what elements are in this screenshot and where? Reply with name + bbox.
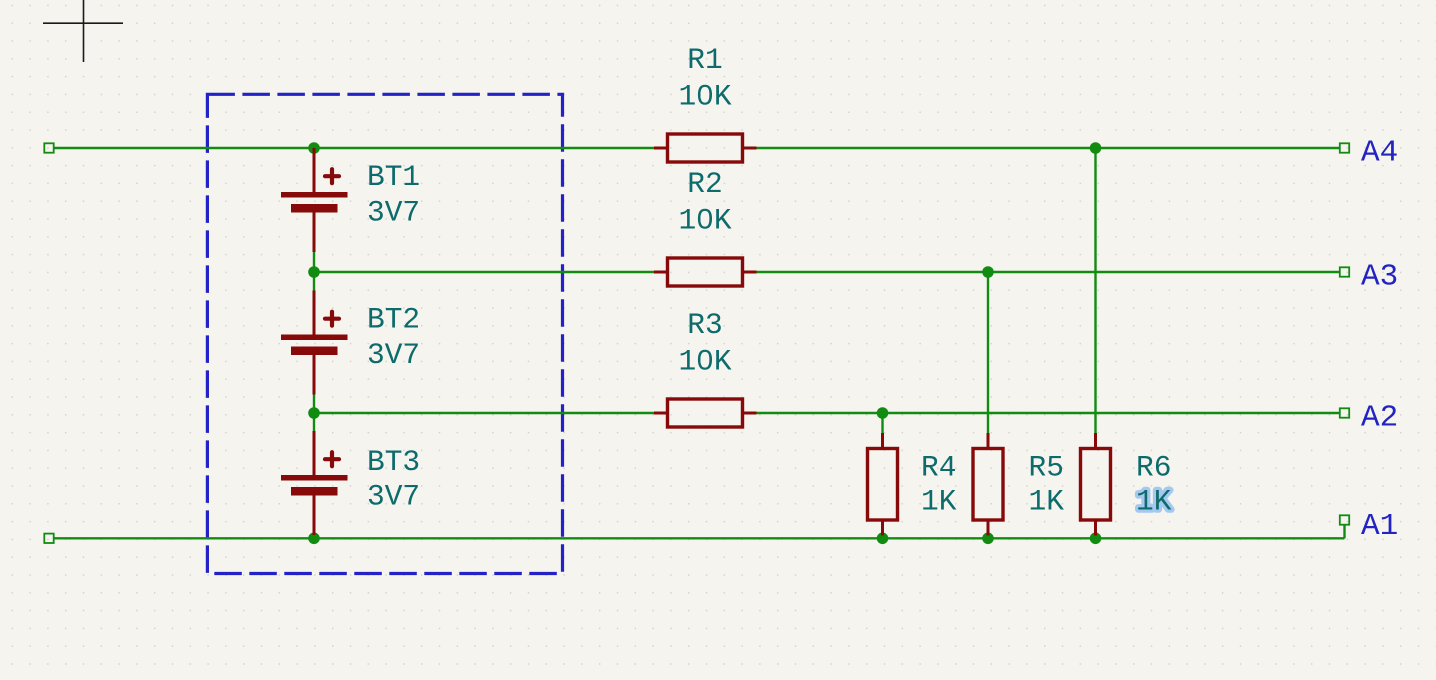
wire end square, A4 right: [1340, 143, 1349, 152]
wire battery stack bottom link: [313, 535, 315, 538]
wire net A3 (right segment): [757, 271, 1341, 273]
svg-text:R3: R3: [687, 308, 722, 342]
wire R6 branch (A4 down to R6): [1094, 148, 1096, 433]
value label 10K (R2): [678, 204, 731, 238]
junction R6 / A1: [1090, 533, 1102, 545]
svg-text:1K: 1K: [921, 485, 957, 519]
junction BT1-BT2 / A3: [308, 266, 320, 278]
wire end square, A2 right: [1340, 408, 1349, 417]
svg-text:R5: R5: [1029, 451, 1064, 485]
resistor R6: [1081, 433, 1111, 536]
junction R4 / A2: [877, 407, 889, 419]
wire net A1 (vertical jog at right end): [1343, 525, 1345, 539]
resistor R3: [654, 399, 757, 427]
svg-text:1K: 1K: [1029, 485, 1065, 519]
svg-text:R2: R2: [687, 167, 722, 201]
wire R5 branch (A3 down to R5): [987, 272, 989, 433]
svg-text:A1: A1: [1361, 509, 1398, 544]
value label 10K (R3): [678, 345, 731, 379]
junction BT3 bottom / A1: [308, 533, 320, 545]
wire net A4 (left segment): [53, 147, 654, 149]
wire net A1 (bottom horizontal): [53, 537, 1345, 539]
junction R5 / A3: [982, 266, 994, 278]
value label 1K (R6, highlighted): [1136, 485, 1172, 519]
svg-text:3V7: 3V7: [367, 338, 420, 372]
svg-text:R4: R4: [921, 451, 956, 485]
battery BT2: [281, 291, 348, 395]
wire net A3 (left segment): [314, 271, 654, 273]
wire net A2 (right segment): [757, 412, 1341, 414]
svg-text:A2: A2: [1361, 401, 1398, 436]
wire battery stack BT1-BT2 link: [313, 252, 315, 291]
value label 10K (R1): [678, 80, 731, 114]
svg-text:A3: A3: [1361, 260, 1398, 295]
battery BT3: [281, 431, 348, 535]
svg-text:R1: R1: [687, 43, 722, 77]
wire net A2 (left segment): [314, 412, 654, 414]
svg-text:R6: R6: [1136, 451, 1171, 485]
resistor R1: [654, 134, 757, 162]
junction R6 / A4: [1090, 142, 1102, 154]
junction BT1 top / A4: [308, 142, 320, 154]
junction R4 / A1: [877, 533, 889, 545]
resistor R4: [868, 433, 898, 536]
svg-text:BT2: BT2: [367, 303, 420, 337]
svg-text:1K: 1K: [1136, 485, 1172, 519]
svg-text:BT3: BT3: [367, 445, 420, 479]
svg-text:3V7: 3V7: [367, 480, 420, 514]
resistor R2: [654, 258, 757, 286]
resistor R5: [973, 433, 1003, 536]
wire battery stack BT2-BT3 link: [313, 395, 315, 432]
battery BT1: [281, 148, 348, 252]
origin marker: [43, 0, 123, 62]
dashed graphic box (battery group): [207, 94, 562, 573]
wire end square, A1 right: [1340, 515, 1349, 524]
wire end square, A1 left: [44, 534, 53, 543]
wire end square, A3 right: [1340, 267, 1349, 276]
wire end square, A4 left: [44, 143, 53, 152]
svg-text:A4: A4: [1361, 136, 1398, 171]
wire net A4 (right segment): [757, 147, 1341, 149]
svg-text:BT1: BT1: [367, 160, 420, 194]
svg-text:3V7: 3V7: [367, 196, 420, 230]
junction R5 / A1: [982, 533, 994, 545]
wire R4 branch (A2 down to R4): [881, 413, 883, 433]
junction BT2-BT3 / A2: [308, 407, 320, 419]
